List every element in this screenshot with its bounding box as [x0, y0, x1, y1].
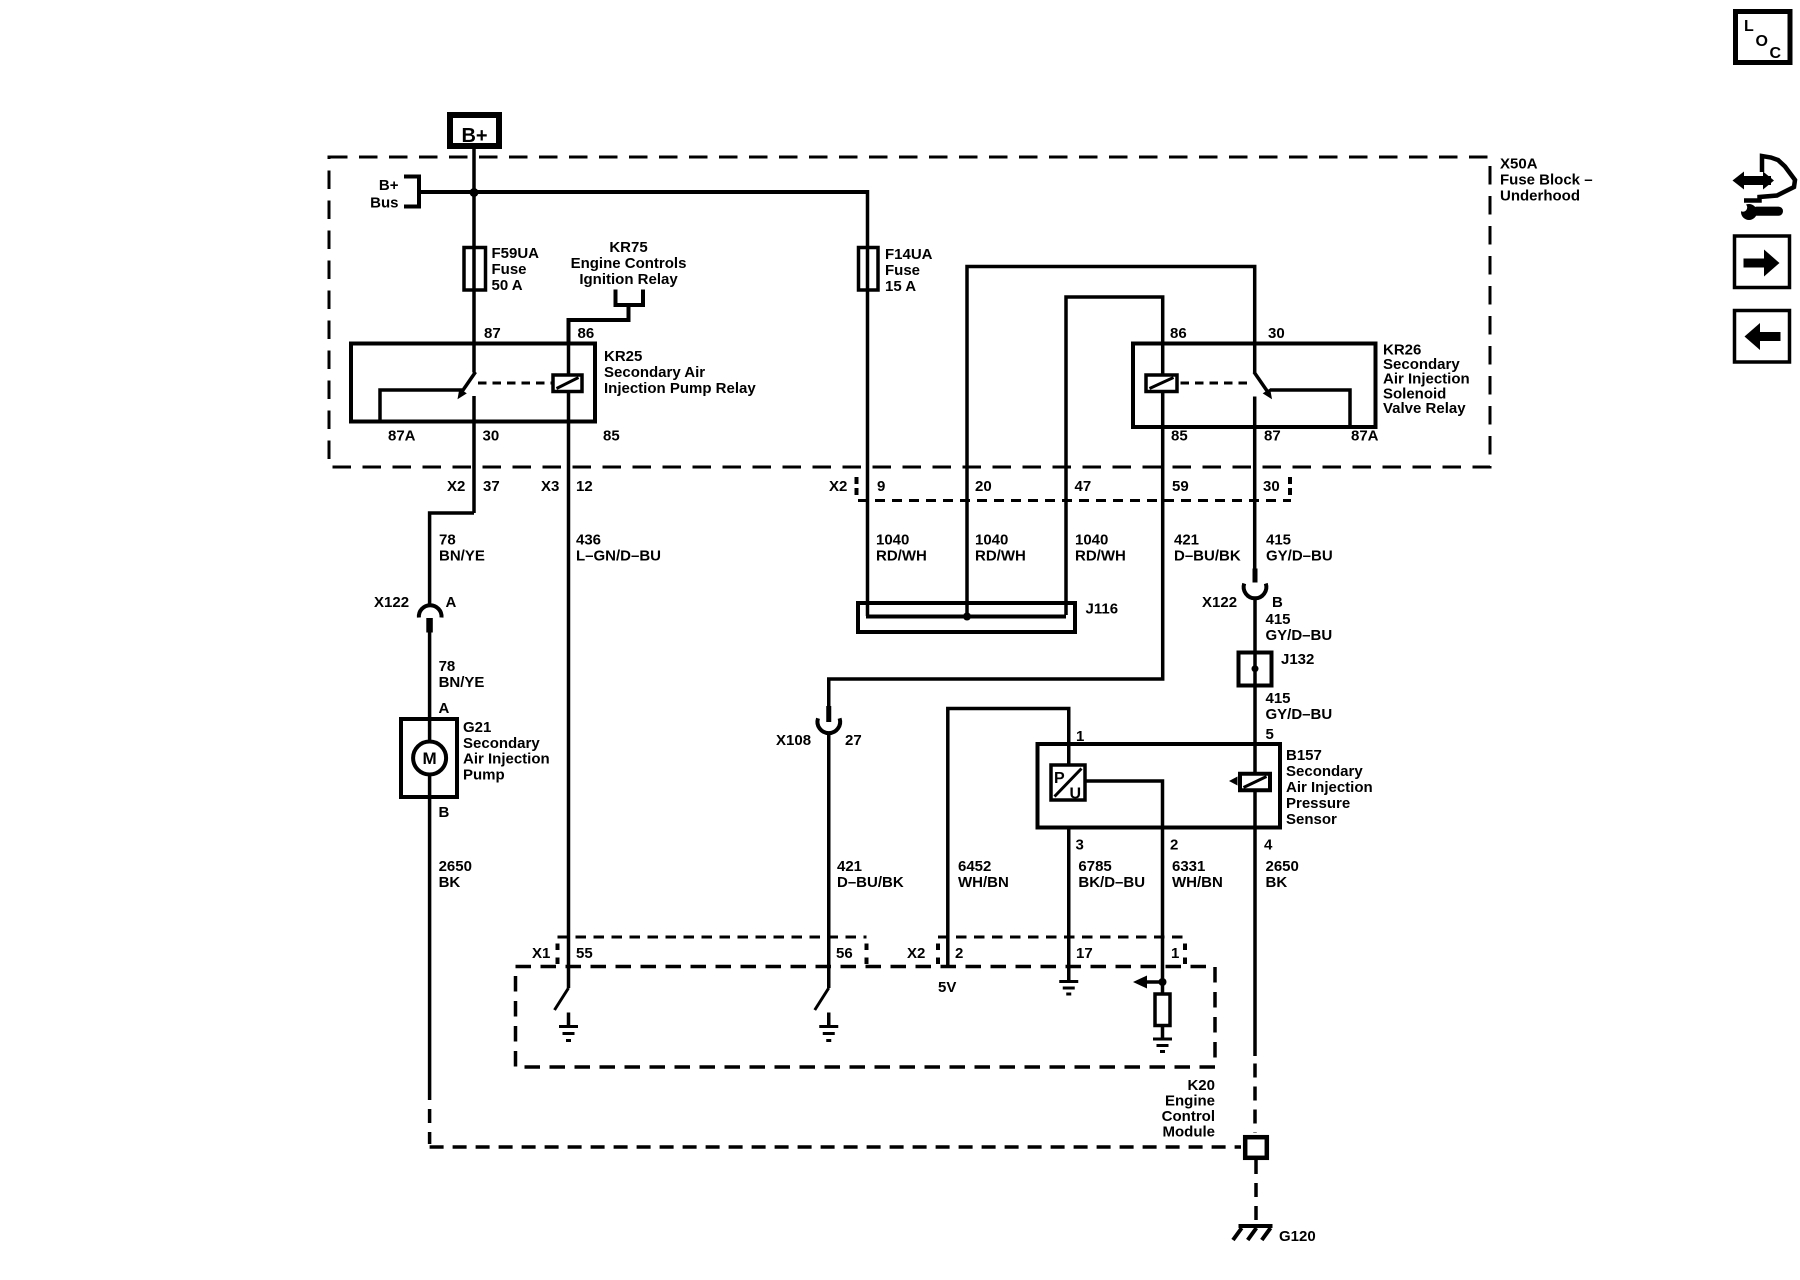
- svg-text:L: L: [1744, 18, 1754, 35]
- fuse F59UA: [464, 248, 486, 291]
- svg-text:M: M: [423, 749, 437, 768]
- KR25 switch blade pin 87 to 30: [461, 372, 476, 393]
- wire 2650 BK hidden path from B157 pin 4: [1253, 1064, 1257, 1134]
- wire 78 BN/YE to pump: [428, 632, 432, 742]
- svg-text:6331: 6331: [1172, 858, 1205, 875]
- KR26 coil: [1146, 375, 1177, 392]
- svg-text:421: 421: [837, 858, 862, 875]
- node junction B+ bus: [470, 188, 479, 197]
- splice block ground: [1245, 1137, 1267, 1158]
- svg-text:X122: X122: [374, 594, 409, 611]
- inline connector X108 terminal 27: [826, 706, 831, 722]
- svg-text:L–GN/D–BU: L–GN/D–BU: [576, 548, 661, 565]
- wire to G120: [1254, 1160, 1258, 1222]
- wire B+ to fuse F59UA: [472, 149, 476, 373]
- svg-text:Ignition Relay: Ignition Relay: [579, 271, 678, 288]
- svg-text:Engine: Engine: [1165, 1093, 1215, 1110]
- svg-text:2650: 2650: [1266, 858, 1299, 875]
- fuse block X50A dashed outline: [329, 157, 1490, 467]
- svg-text:59: 59: [1172, 478, 1189, 495]
- ECM X1 connector row: [558, 936, 867, 939]
- svg-text:1040: 1040: [1075, 532, 1108, 549]
- ECM driver switch pin 55: [555, 988, 569, 1010]
- svg-text:X108: X108: [776, 732, 811, 749]
- wire bus to F14UA to J116: [866, 190, 870, 616]
- svg-text:A: A: [439, 700, 450, 717]
- wire 421 D-BU/BK KR26 85 to X108: [829, 392, 1163, 707]
- svg-text:415: 415: [1266, 532, 1291, 549]
- inline connector X122 A: [419, 605, 442, 617]
- KR25 pin 86/85 wire: [567, 344, 571, 989]
- svg-text:Injection Pump Relay: Injection Pump Relay: [604, 380, 756, 397]
- svg-text:BK/D–BU: BK/D–BU: [1078, 874, 1145, 891]
- splice J132: [1239, 653, 1272, 686]
- svg-text:30: 30: [1268, 325, 1285, 342]
- ground ECM pin 17: [1059, 980, 1078, 983]
- KR26 pin 86/85 wire: [1161, 344, 1165, 392]
- svg-text:D–BU/BK: D–BU/BK: [837, 874, 904, 891]
- svg-text:B+: B+: [461, 125, 487, 147]
- wire 6785 BK/D-BU B157 pin 3 to ECM 17: [1067, 828, 1071, 981]
- KR26 pin 30 pivot wire: [1253, 344, 1257, 373]
- svg-text:1: 1: [1171, 945, 1179, 962]
- svg-text:87: 87: [1264, 428, 1281, 445]
- svg-text:Sensor: Sensor: [1286, 811, 1337, 828]
- svg-text:Pump: Pump: [463, 766, 505, 783]
- svg-text:A: A: [446, 594, 457, 611]
- svg-text:U: U: [1070, 786, 1082, 803]
- svg-text:X50A: X50A: [1500, 156, 1538, 173]
- svg-text:Control: Control: [1162, 1108, 1215, 1125]
- wire 2650 BK pump to ground path: [428, 775, 432, 1087]
- svg-text:436: 436: [576, 532, 601, 549]
- svg-text:RD/WH: RD/WH: [876, 548, 927, 565]
- svg-text:J116: J116: [1086, 601, 1119, 618]
- KR25 pin 30 wire: [472, 396, 476, 513]
- svg-text:1040: 1040: [876, 532, 909, 549]
- svg-text:47: 47: [1075, 478, 1092, 495]
- ground ECM pin 1: [1161, 1026, 1165, 1039]
- LOC legend box: [1736, 12, 1791, 63]
- svg-text:C: C: [1770, 45, 1782, 62]
- vehicle/service icon: [1744, 156, 1795, 201]
- ECM X2 connector row: [938, 936, 1185, 939]
- svg-text:Underhood: Underhood: [1500, 188, 1580, 205]
- svg-text:415: 415: [1266, 690, 1291, 707]
- svg-text:415: 415: [1266, 611, 1291, 628]
- svg-text:6452: 6452: [958, 858, 991, 875]
- svg-text:50 A: 50 A: [492, 277, 523, 294]
- svg-text:GY/D–BU: GY/D–BU: [1266, 706, 1333, 723]
- wire jog X2-37 to X122 A: [430, 513, 474, 607]
- B157 P/U transducer symbol: [1051, 765, 1085, 800]
- motor G21 Secondary Air Injection Pump: [401, 719, 457, 797]
- svg-text:B: B: [439, 804, 450, 821]
- svg-text:F14UA: F14UA: [885, 246, 933, 263]
- svg-text:30: 30: [483, 428, 500, 445]
- svg-text:B: B: [1272, 594, 1283, 611]
- KR25 pin 87A contact: [380, 390, 462, 422]
- node J116 junction: [963, 613, 971, 621]
- ECM pin 1 sense arrow: [1161, 937, 1165, 994]
- svg-text:87A: 87A: [388, 428, 416, 445]
- svg-text:30: 30: [1263, 478, 1280, 495]
- svg-text:GY/D–BU: GY/D–BU: [1266, 548, 1333, 565]
- svg-text:Bus: Bus: [370, 195, 398, 212]
- svg-text:2: 2: [955, 945, 963, 962]
- svg-text:Secondary: Secondary: [1286, 763, 1363, 780]
- svg-text:6785: 6785: [1078, 858, 1111, 875]
- B+ Bus bracket: [404, 177, 419, 207]
- fuse F14UA: [859, 248, 879, 291]
- svg-text:KR75: KR75: [609, 239, 647, 256]
- ground G120: [1239, 1224, 1273, 1228]
- B157 pressure element: [1240, 774, 1270, 791]
- svg-text:X3: X3: [541, 478, 559, 495]
- resistor ECM pull-up: [1155, 994, 1170, 1026]
- svg-text:Valve Relay: Valve Relay: [1383, 400, 1466, 417]
- svg-text:5: 5: [1266, 726, 1274, 743]
- svg-text:4: 4: [1264, 837, 1273, 854]
- ground ECM pin 56: [819, 1025, 838, 1028]
- svg-text:X2: X2: [907, 945, 925, 962]
- svg-text:Pressure: Pressure: [1286, 795, 1350, 812]
- svg-text:Air Injection: Air Injection: [463, 751, 550, 768]
- svg-text:17: 17: [1076, 945, 1093, 962]
- svg-text:87A: 87A: [1351, 428, 1379, 445]
- wire B157 pin 5 internal: [1253, 744, 1257, 828]
- svg-text:37: 37: [483, 478, 500, 495]
- KR26 pin 87 wire to X122 B: [1253, 397, 1257, 570]
- svg-text:2: 2: [1170, 837, 1178, 854]
- connector X2 bracket right: [1288, 477, 1292, 496]
- svg-text:G120: G120: [1279, 1228, 1316, 1245]
- svg-text:Air Injection: Air Injection: [1286, 779, 1373, 796]
- svg-text:5V: 5V: [938, 979, 956, 996]
- svg-text:X2: X2: [829, 478, 847, 495]
- wire 415 GY/D-BU to J132: [1253, 598, 1257, 745]
- inline connector X122 B: [1253, 569, 1258, 583]
- svg-text:BK: BK: [1266, 874, 1288, 891]
- wire 2650 BK hidden path from pump: [428, 1086, 432, 1144]
- ground ECM pin 55: [559, 1025, 578, 1028]
- wire 1040 RD/WH J116 to KR26 pin 30: [967, 267, 1255, 617]
- wire 6452 B157 pin 1 to ECM X2-2: [948, 709, 1069, 968]
- connector X2 row bottom dashed: [858, 499, 1291, 502]
- svg-text:WH/BN: WH/BN: [958, 874, 1009, 891]
- svg-text:K20: K20: [1187, 1077, 1215, 1094]
- svg-text:BK: BK: [439, 874, 461, 891]
- svg-text:Fuse Block –: Fuse Block –: [1500, 172, 1593, 189]
- KR26 switch blade pin 30 to 87: [1254, 372, 1269, 393]
- svg-text:Engine Controls: Engine Controls: [571, 255, 687, 272]
- svg-text:RD/WH: RD/WH: [1075, 548, 1126, 565]
- connector X2 bracket left: [855, 477, 859, 496]
- svg-text:G21: G21: [463, 719, 491, 736]
- svg-text:KR25: KR25: [604, 348, 642, 365]
- svg-text:15 A: 15 A: [885, 278, 916, 295]
- ECM driver switch pin 56: [815, 988, 829, 1010]
- svg-text:X122: X122: [1202, 594, 1237, 611]
- svg-text:P: P: [1054, 770, 1065, 787]
- svg-text:Secondary Air: Secondary Air: [604, 364, 705, 381]
- svg-text:Module: Module: [1163, 1124, 1216, 1141]
- svg-text:D–BU/BK: D–BU/BK: [1174, 548, 1241, 565]
- wire B+ bus: [419, 190, 868, 194]
- KR25 coil: [553, 375, 582, 392]
- svg-text:Fuse: Fuse: [492, 261, 527, 278]
- svg-text:RD/WH: RD/WH: [975, 548, 1026, 565]
- svg-text:Fuse: Fuse: [885, 262, 920, 279]
- wire 1040 RD/WH J116 to KR26 pin 86: [1066, 297, 1163, 615]
- forward arrow legend box: [1735, 236, 1790, 288]
- svg-text:O: O: [1756, 33, 1768, 50]
- svg-text:9: 9: [877, 478, 885, 495]
- ECM K20 dashed box: [516, 967, 1216, 1068]
- svg-text:BN/YE: BN/YE: [439, 674, 485, 691]
- wire B157 internal P/U to pin 2: [1085, 781, 1163, 937]
- wire 2650 BK B157 pin 4: [1253, 828, 1257, 1056]
- svg-text:78: 78: [439, 658, 456, 675]
- KR26 coil link dashed: [1181, 382, 1252, 385]
- svg-text:55: 55: [576, 945, 593, 962]
- svg-text:85: 85: [1171, 428, 1188, 445]
- svg-text:J132: J132: [1281, 651, 1314, 668]
- svg-text:B157: B157: [1286, 747, 1322, 764]
- svg-text:GY/D–BU: GY/D–BU: [1266, 627, 1333, 644]
- svg-text:78: 78: [439, 532, 456, 549]
- svg-text:Secondary: Secondary: [463, 735, 540, 752]
- svg-text:85: 85: [603, 428, 620, 445]
- svg-text:20: 20: [975, 478, 992, 495]
- sensor B157 box: [1038, 744, 1281, 828]
- relay KR25 box: [351, 344, 595, 422]
- svg-text:2650: 2650: [439, 858, 472, 875]
- svg-text:27: 27: [845, 732, 862, 749]
- svg-text:WH/BN: WH/BN: [1172, 874, 1223, 891]
- svg-text:B+: B+: [379, 177, 399, 194]
- svg-text:X2: X2: [447, 478, 465, 495]
- svg-text:F59UA: F59UA: [492, 245, 540, 262]
- svg-text:421: 421: [1174, 532, 1199, 549]
- wire 421 D-BU/BK to ECM 56: [827, 732, 831, 988]
- KR25 coil link dashed: [478, 382, 552, 385]
- KR75 bracket: [616, 290, 644, 306]
- svg-text:BN/YE: BN/YE: [439, 548, 485, 565]
- svg-text:56: 56: [836, 945, 853, 962]
- B+ terminal: [450, 115, 499, 146]
- svg-text:3: 3: [1076, 837, 1084, 854]
- svg-text:87: 87: [484, 325, 501, 342]
- relay KR26 box: [1133, 344, 1376, 428]
- back arrow legend box: [1735, 311, 1790, 363]
- wire KR75 to KR25 pin 86: [569, 303, 629, 344]
- svg-text:12: 12: [576, 478, 593, 495]
- svg-text:X1: X1: [532, 945, 550, 962]
- svg-text:86: 86: [578, 325, 595, 342]
- svg-text:86: 86: [1170, 325, 1187, 342]
- KR26 pin 87A contact: [1270, 390, 1350, 427]
- splice pack J116: [858, 603, 1075, 632]
- svg-text:1040: 1040: [975, 532, 1008, 549]
